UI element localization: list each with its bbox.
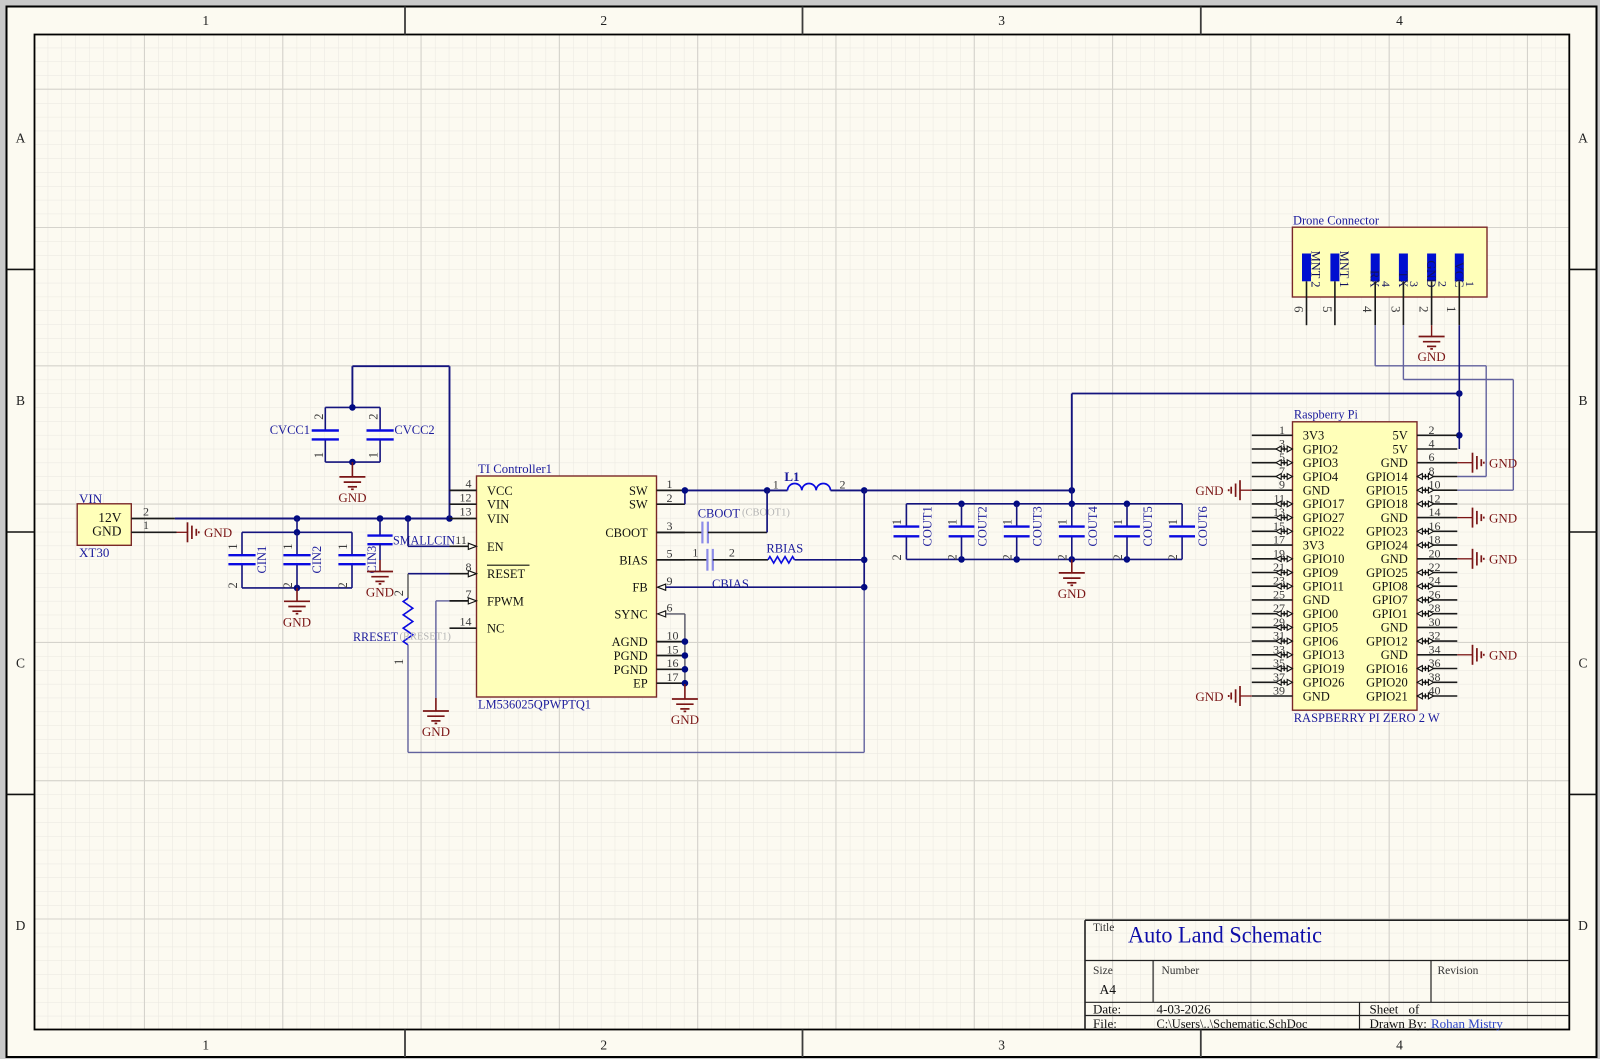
svg-text:Drawn By:: Drawn By: [1370,1016,1427,1031]
svg-text:SW: SW [629,484,648,498]
svg-text:1: 1 [392,659,406,665]
ground below CVCC [338,462,366,505]
svg-text:GND: GND [1381,552,1408,566]
svg-text:GPIO13: GPIO13 [1303,648,1345,662]
svg-text:2: 2 [336,582,350,588]
svg-text:GPIO21: GPIO21 [1366,689,1408,703]
svg-text:1: 1 [692,546,698,560]
ground at Pi pin 14 [1457,508,1517,528]
ground at Pi pin 20 [1457,549,1517,569]
svg-text:GPIO4: GPIO4 [1303,470,1339,484]
wire drone VCC to 5V [1456,325,1463,449]
svg-text:EP: EP [633,677,648,691]
pin 15 (PGND) of U1 [614,642,685,663]
svg-text:12V: 12V [98,510,122,525]
svg-text:GND: GND [1489,456,1517,471]
wire FB net [666,586,864,588]
svg-text:CBOOT: CBOOT [605,526,648,540]
svg-text:GPIO20: GPIO20 [1366,676,1408,690]
svg-text:GND: GND [1418,349,1446,364]
svg-text:30: 30 [1429,615,1441,629]
capacitor COUT2 [945,504,989,561]
svg-text:GPIO24: GPIO24 [1366,538,1408,552]
svg-text:GPIO11: GPIO11 [1303,580,1344,594]
svg-text:GPIO26: GPIO26 [1303,676,1345,690]
svg-text:GND: GND [1381,648,1408,662]
svg-text:2: 2 [945,554,959,560]
svg-text:PGND: PGND [614,663,648,677]
capacitor CBOOT [657,507,791,544]
svg-text:Date:: Date: [1093,1002,1121,1017]
svg-text:MNT 1: MNT 1 [1337,251,1351,288]
svg-text:COUT2: COUT2 [976,506,990,546]
svg-text:12: 12 [460,490,472,504]
pin 17 (3V3) of Raspberry Pi [1252,533,1324,553]
pin 9 (FB) of U1 [632,574,672,595]
svg-text:SW: SW [629,498,648,512]
svg-text:1: 1 [1056,519,1070,525]
svg-text:Rohan Mistry: Rohan Mistry [1431,1016,1503,1031]
svg-text:GND: GND [1489,552,1517,567]
ground at XT30 pin 1 [177,522,233,542]
pin 22 (GPIO25) of Raspberry Pi [1366,560,1457,580]
svg-text:GND: GND [1489,648,1517,663]
svg-text:GPIO15: GPIO15 [1366,484,1408,498]
pin 23 (GPIO11) of Raspberry Pi [1252,574,1344,594]
svg-text:RESET: RESET [487,567,526,581]
pin 1 (VCC) of Drone Connector [1444,254,1477,326]
svg-text:1: 1 [1111,519,1125,525]
svg-text:GPIO9: GPIO9 [1303,566,1338,580]
pin 5 (MNT 1) of Drone Connector [1320,251,1351,326]
capacitor CIN2 [281,532,324,588]
svg-text:1: 1 [1463,281,1477,287]
svg-text:MNT 2: MNT 2 [1309,251,1323,288]
pin 32 (GPIO12) of Raspberry Pi [1366,629,1457,649]
svg-text:2: 2 [667,491,673,505]
resistor RRESET [353,574,451,665]
wire RESET net [408,573,450,575]
svg-text:A: A [16,131,26,146]
svg-text:1: 1 [336,544,350,550]
pin 16 (PGND) of U1 [614,656,685,677]
pin 1 (SW) of U1 [629,477,685,498]
svg-text:6: 6 [1429,450,1435,464]
svg-text:COUT4: COUT4 [1086,505,1100,546]
svg-text:GND: GND [1381,456,1408,470]
svg-text:4: 4 [1396,13,1403,28]
svg-text:2: 2 [1111,554,1125,560]
svg-text:GND: GND [671,712,699,727]
ground below SMALLCIN [366,560,394,600]
pin 33 (GPIO13) of Raspberry Pi [1252,642,1345,662]
pin 5 (BIAS) of U1 [619,547,685,568]
svg-text:GPIO12: GPIO12 [1366,634,1408,648]
svg-text:GND: GND [1303,484,1330,498]
pin 4 (RX) of Drone Connector [1360,254,1393,326]
wire CVCC rails [325,404,380,465]
capacitor COUT4 [1056,504,1100,561]
svg-text:GND: GND [1381,511,1408,525]
svg-text:File:: File: [1093,1016,1117,1031]
svg-text:GPIO23: GPIO23 [1366,525,1408,539]
svg-text:GPIO27: GPIO27 [1303,511,1345,525]
svg-text:2: 2 [1001,554,1015,560]
capacitor CIN3 [336,532,379,588]
svg-text:SYNC: SYNC [614,607,647,621]
svg-text:4: 4 [1429,437,1435,451]
svg-text:XT30: XT30 [79,545,109,560]
capacitor COUT3 [1001,504,1045,561]
pin 27 (GPIO0) of Raspberry Pi [1252,601,1338,621]
svg-text:39: 39 [1273,684,1285,698]
svg-text:CBOOT: CBOOT [698,507,741,521]
wire VCC to CVCC caps [352,366,449,518]
pin 7 (GPIO4) of Raspberry Pi [1252,464,1339,484]
pin 36 (GPIO16) of Raspberry Pi [1366,656,1457,676]
svg-text:RRESET: RRESET [353,630,398,644]
svg-text:GPIO6: GPIO6 [1303,634,1338,648]
svg-text:2: 2 [600,13,607,28]
svg-text:(RRESET1): (RRESET1) [400,632,452,643]
svg-text:GPIO3: GPIO3 [1303,456,1338,470]
node junctions on 12V rail [294,515,453,522]
op-amp U1 TI Controller1 LM536025QPWPTQ1 [477,462,657,712]
svg-text:15: 15 [667,642,679,656]
capacitor CBIAS [657,546,749,592]
svg-text:COUT6: COUT6 [1196,506,1210,546]
svg-text:GND: GND [1489,510,1517,525]
resistor RBIAS [713,542,864,563]
pin 34 (GND) of Raspberry Pi [1381,642,1458,662]
pin 11 (GPIO17) of Raspberry Pi [1252,491,1345,511]
svg-text:20: 20 [1429,546,1441,560]
pin 25 (GND) of Raspberry Pi [1252,587,1330,607]
svg-text:17: 17 [1273,533,1285,547]
pin 6 (GND) of Raspberry Pi [1381,450,1458,470]
svg-text:C: C [16,656,25,671]
svg-text:1: 1 [202,1038,209,1053]
pin 10 (AGND) of U1 [612,628,685,649]
pin 13 (GPIO27) of Raspberry Pi [1252,505,1345,525]
svg-text:Revision: Revision [1438,965,1479,977]
svg-text:1: 1 [1279,423,1285,437]
svg-text:CVCC1: CVCC1 [270,423,310,437]
pin 3 (TX) of Drone Connector [1388,254,1421,326]
pin 3 (CBOOT) of U1 [605,519,685,540]
pin 13 (VIN) of U1 [450,505,510,526]
svg-text:GND: GND [422,724,450,739]
svg-text:EN: EN [487,540,504,554]
pin 40 (GPIO21) of Raspberry Pi [1366,684,1457,704]
svg-text:2: 2 [600,1038,607,1053]
pin 39 (GND) of Raspberry Pi [1252,684,1330,704]
svg-text:FPWM: FPWM [487,594,524,608]
wire SYNC to AGND [666,614,685,684]
svg-text:2: 2 [392,590,406,596]
capacitor CIN1 [226,532,269,588]
pin 30 (GND) of Raspberry Pi [1381,615,1458,635]
pin 6 (SYNC) of U1 [614,601,672,622]
svg-text:PGND: PGND [614,649,648,663]
svg-text:GND: GND [1058,586,1086,601]
pin 15 (GPIO22) of Raspberry Pi [1252,519,1345,539]
pin 4 (VCC) of U1 [450,477,513,498]
svg-text:A: A [1578,131,1588,146]
svg-text:CBIAS: CBIAS [712,577,749,591]
svg-text:AGND: AGND [612,635,648,649]
capacitor SMALLCIN [367,519,455,561]
svg-text:GPIO7: GPIO7 [1372,593,1407,607]
svg-text:GPIO18: GPIO18 [1366,497,1408,511]
svg-text:BIAS: BIAS [619,553,648,567]
svg-text:COUT3: COUT3 [1031,506,1045,546]
wire VOUT rail [864,487,1075,504]
svg-text:1: 1 [202,13,209,28]
svg-text:Title: Title [1093,922,1114,934]
pin 4 (5V) of Raspberry Pi [1393,437,1458,457]
svg-text:COUT5: COUT5 [1141,506,1155,546]
pin 20 (GND) of Raspberry Pi [1381,546,1458,566]
svg-text:1: 1 [1001,519,1015,525]
pin 6 (MNT 2) of Drone Connector [1291,251,1322,326]
svg-text:Sheet: Sheet [1370,1002,1399,1017]
pin 8 (RESET) of U1 [450,560,530,581]
svg-text:COUT1: COUT1 [920,506,934,546]
pin 26 (GPIO7) of Raspberry Pi [1372,587,1457,607]
pin 16 (GPIO23) of Raspberry Pi [1366,519,1457,539]
svg-text:B: B [16,393,25,408]
svg-text:GND: GND [366,585,394,600]
svg-text:2: 2 [1166,554,1180,560]
svg-text:CVCC2: CVCC2 [394,423,434,437]
svg-text:4: 4 [1379,281,1393,287]
capacitor CVCC1 [270,407,339,462]
svg-text:CIN2: CIN2 [310,546,324,574]
ground below COUT4 [1058,559,1086,601]
pin 14 (NC) of U1 [450,614,505,635]
svg-text:4-03-2026: 4-03-2026 [1157,1002,1212,1017]
wire CIN bank rails [242,519,352,592]
wire COUT rails [906,501,1182,563]
capacitor COUT5 [1111,504,1155,561]
svg-text:B: B [1578,393,1587,408]
svg-text:GPIO5: GPIO5 [1303,621,1338,635]
svg-text:Drone Connector: Drone Connector [1293,213,1380,227]
svg-text:FB: FB [632,581,647,595]
pin 2 (5V) of Raspberry Pi [1393,423,1458,443]
node AGND/PGND/EP junctions [682,638,689,686]
svg-text:GND: GND [92,524,121,539]
svg-text:Number: Number [1162,965,1200,977]
ground below CIN2 [283,588,311,629]
svg-text:(CBOOT1): (CBOOT1) [742,508,790,519]
svg-text:2: 2 [1435,281,1449,287]
svg-text:2: 2 [1417,306,1432,313]
svg-text:1: 1 [1444,306,1459,313]
svg-text:14: 14 [460,614,472,628]
svg-text:GPIO19: GPIO19 [1303,662,1345,676]
ground at Pi pin 34 [1457,645,1517,665]
svg-text:Raspberry Pi: Raspberry Pi [1294,407,1359,421]
pin 17 (EP) of U1 [633,670,685,691]
svg-text:Size: Size [1093,965,1113,977]
svg-text:2: 2 [143,504,149,518]
pin 14 (GND) of Raspberry Pi [1381,505,1458,525]
svg-text:GPIO22: GPIO22 [1303,525,1345,539]
svg-text:D: D [1578,918,1588,933]
svg-text:2: 2 [312,414,326,420]
svg-text:1: 1 [143,518,149,532]
svg-text:8: 8 [466,560,472,574]
pin 35 (GPIO19) of Raspberry Pi [1252,656,1345,676]
svg-text:4: 4 [1396,1038,1403,1053]
svg-text:34: 34 [1429,642,1441,656]
svg-text:4: 4 [466,477,472,491]
wire RRESET bottom to FB loop [408,587,864,752]
svg-text:C: C [1578,656,1587,671]
svg-text:1: 1 [367,452,381,458]
wire CBOOT to SW [766,490,768,532]
capacitor CVCC2 [367,407,435,462]
svg-text:3V3: 3V3 [1303,429,1325,443]
pin 11 (EN) of U1 [450,533,504,554]
pin 8 (GPIO14) of Raspberry Pi [1366,464,1457,484]
wire drone RX to GPIO14 [1375,325,1486,476]
svg-text:NC: NC [487,622,504,636]
connector VIN XT30 [77,491,131,560]
connector Drone Connector [1292,213,1487,297]
svg-text:GPIO1: GPIO1 [1372,607,1407,621]
ground at FPWM [422,698,450,739]
svg-text:2: 2 [890,554,904,560]
svg-text:GND: GND [1195,689,1223,704]
svg-text:C:\Users\..\Schematic.SchDoc: C:\Users\..\Schematic.SchDoc [1157,1016,1308,1031]
svg-text:2: 2 [729,546,735,560]
title block [1085,920,1569,1031]
svg-text:9: 9 [667,574,673,588]
svg-text:GPIO16: GPIO16 [1366,662,1408,676]
svg-text:3V3: 3V3 [1303,538,1325,552]
node SW output junction [861,487,868,590]
pin 9 (GND) of Raspberry Pi [1252,478,1330,498]
pin 10 (GPIO15) of Raspberry Pi [1366,478,1457,498]
svg-text:GND: GND [283,614,311,629]
svg-text:1: 1 [281,544,295,550]
svg-text:LM536025QPWPTQ1: LM536025QPWPTQ1 [478,698,591,712]
svg-text:RASPBERRY PI ZERO 2 W: RASPBERRY PI ZERO 2 W [1294,711,1440,725]
ground at Pi pin 6 [1457,453,1517,473]
pin 28 (GPIO1) of Raspberry Pi [1372,601,1457,621]
wire 5V feed [1072,390,1463,490]
wire drone TX to GPIO15 [1403,325,1513,490]
svg-text:5: 5 [1320,306,1335,313]
svg-text:CIN1: CIN1 [255,546,269,574]
svg-text:14: 14 [1429,505,1441,519]
svg-text:1: 1 [773,477,779,491]
svg-text:VCC: VCC [487,484,513,498]
svg-text:GND: GND [1195,483,1223,498]
pin 1 (3V3) of Raspberry Pi [1252,423,1324,443]
svg-text:5V: 5V [1393,442,1408,456]
svg-text:1: 1 [667,477,673,491]
svg-text:25: 25 [1273,587,1285,601]
pin 7 (FPWM) of U1 [450,587,524,608]
svg-text:1: 1 [1166,519,1180,525]
svg-text:GND: GND [204,525,232,540]
svg-text:CIN3: CIN3 [365,546,379,574]
svg-text:GPIO10: GPIO10 [1303,552,1345,566]
svg-text:4: 4 [1360,306,1375,313]
ground at Pi pin 9 [1195,480,1251,500]
svg-text:17: 17 [667,670,679,684]
pin 1 (GND) of XT30 [131,518,176,532]
capacitor COUT1 [890,504,934,561]
svg-text:SMALLCIN: SMALLCIN [393,533,455,547]
pin 18 (GPIO24) of Raspberry Pi [1366,533,1457,553]
svg-text:GND: GND [1303,593,1330,607]
svg-text:2: 2 [1429,423,1435,437]
svg-text:GND: GND [1303,689,1330,703]
svg-text:6: 6 [667,601,673,615]
svg-text:GND: GND [338,490,366,505]
svg-text:2: 2 [367,414,381,420]
pin 38 (GPIO20) of Raspberry Pi [1366,670,1457,690]
svg-text:11: 11 [455,533,467,547]
svg-text:GPIO25: GPIO25 [1366,566,1408,580]
svg-text:GPIO2: GPIO2 [1303,442,1338,456]
svg-text:9: 9 [1279,478,1285,492]
svg-text:2: 2 [840,477,846,491]
pin 37 (GPIO26) of Raspberry Pi [1252,670,1345,690]
svg-text:2: 2 [1056,554,1070,560]
pin 12 (GPIO18) of Raspberry Pi [1366,491,1457,511]
svg-text:A4: A4 [1100,982,1117,997]
pin 12 (VIN) of U1 [450,490,510,511]
svg-text:GPIO14: GPIO14 [1366,470,1408,484]
pin 31 (GPIO6) of Raspberry Pi [1252,629,1338,649]
svg-text:3: 3 [667,519,673,533]
wire SW node [682,487,771,504]
svg-text:10: 10 [667,628,679,642]
svg-text:VIN: VIN [487,498,509,512]
svg-text:of: of [1409,1002,1421,1017]
pin 5 (GPIO3) of Raspberry Pi [1252,450,1338,470]
svg-text:TI Controller1: TI Controller1 [478,462,552,476]
svg-text:3: 3 [998,1038,1005,1053]
pin 2 (SW) of U1 [629,491,685,512]
svg-text:2: 2 [226,582,240,588]
svg-text:2: 2 [281,582,295,588]
svg-text:7: 7 [466,587,472,601]
svg-text:3: 3 [1388,306,1403,313]
svg-text:1: 1 [226,544,240,550]
svg-text:VIN: VIN [487,512,509,526]
svg-text:1: 1 [890,519,904,525]
svg-text:6: 6 [1291,306,1306,313]
zone dividers [404,7,406,35]
svg-text:GPIO8: GPIO8 [1372,580,1407,594]
svg-text:1: 1 [945,519,959,525]
inductor L1 [767,469,864,491]
pin 24 (GPIO8) of Raspberry Pi [1372,574,1457,594]
svg-text:1: 1 [312,452,326,458]
svg-text:5V: 5V [1393,429,1408,443]
svg-text:L1: L1 [784,469,799,484]
pin 21 (GPIO9) of Raspberry Pi [1252,560,1338,580]
pin 19 (GPIO10) of Raspberry Pi [1252,546,1345,566]
svg-text:3: 3 [1407,281,1421,287]
